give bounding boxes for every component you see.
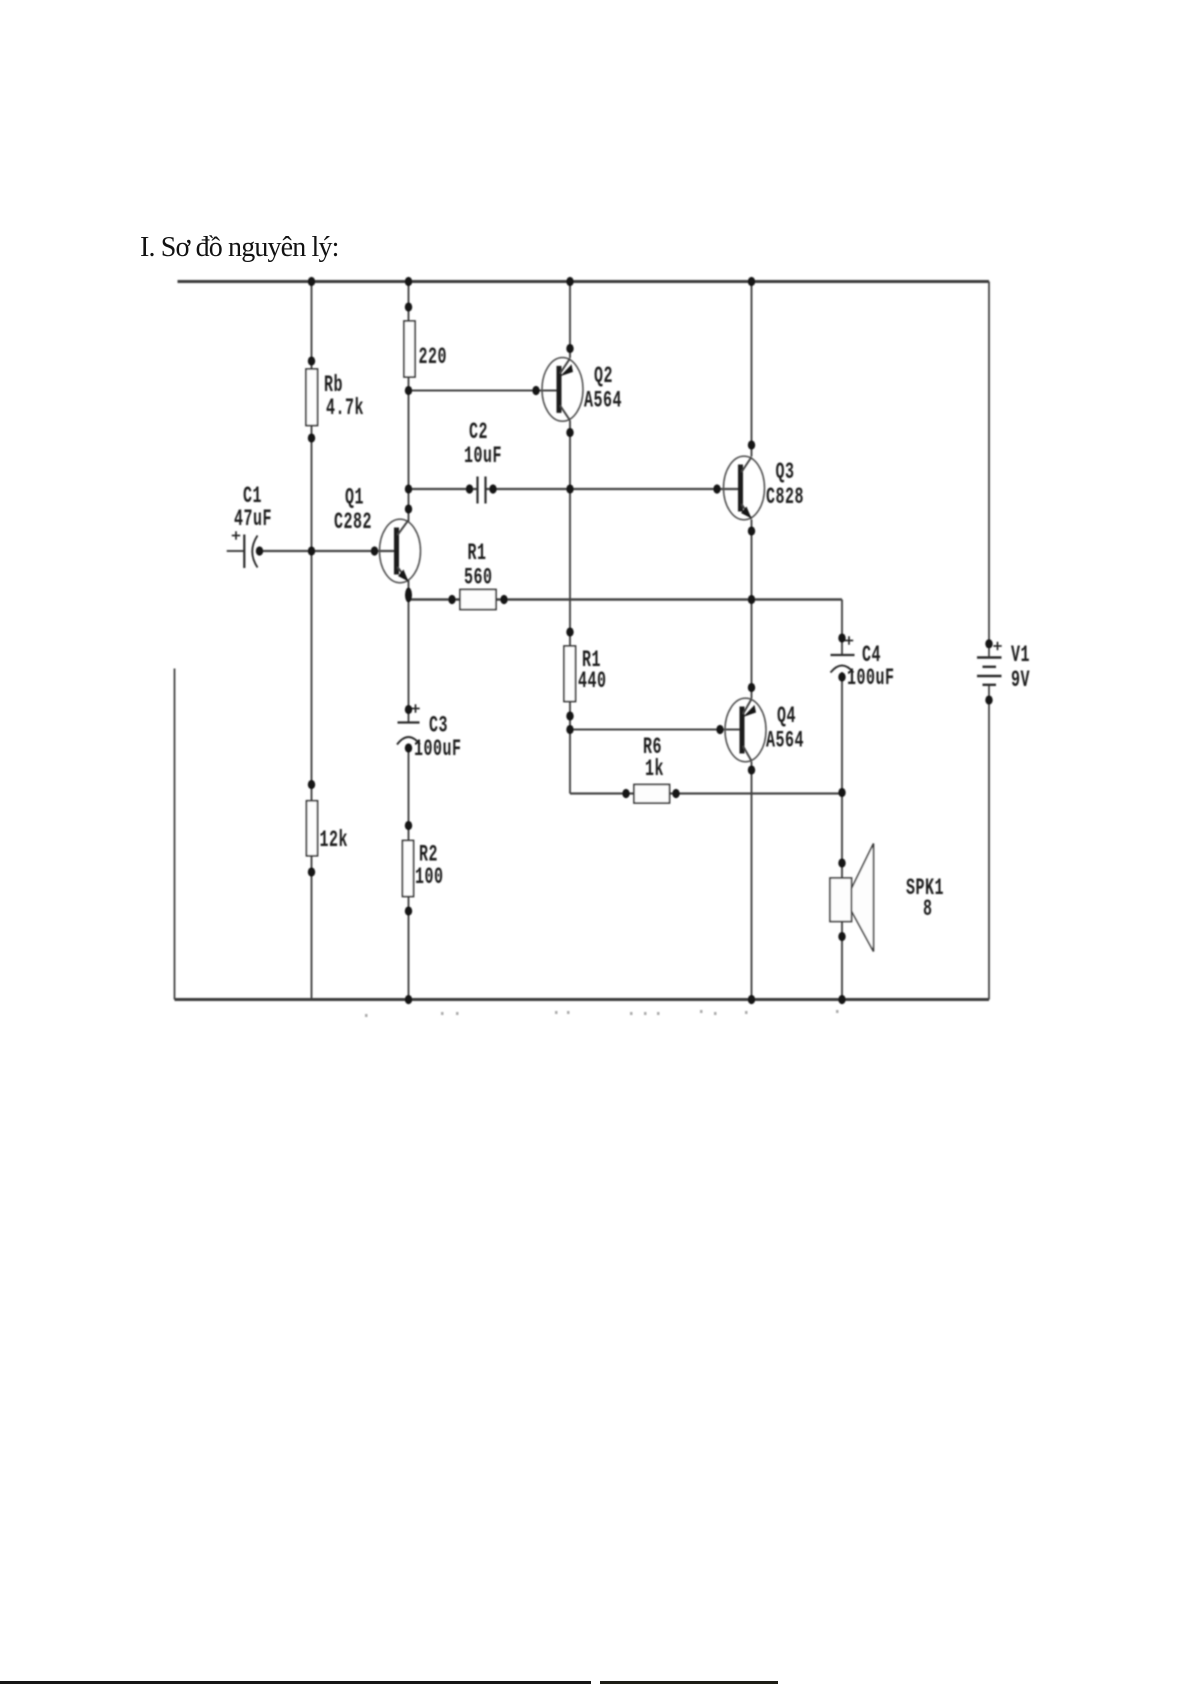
svg-text:V1: V1 (1011, 642, 1030, 668)
svg-text:12k: 12k (320, 827, 348, 853)
svg-text:560: 560 (464, 564, 492, 590)
svg-text:C828: C828 (766, 484, 804, 510)
svg-text:100uF: 100uF (414, 736, 461, 762)
svg-text:Q1: Q1 (345, 484, 364, 510)
svg-text:100: 100 (415, 864, 443, 890)
svg-text:Q3: Q3 (776, 459, 795, 485)
svg-text:Q2: Q2 (594, 363, 613, 389)
svg-text:47uF: 47uF (234, 506, 272, 532)
svg-text:A564: A564 (584, 387, 622, 413)
svg-text:4.7k: 4.7k (326, 395, 364, 421)
svg-text:Q4: Q4 (777, 703, 796, 729)
svg-text:A564: A564 (766, 727, 804, 753)
svg-text:440: 440 (578, 668, 606, 694)
svg-text:10uF: 10uF (464, 443, 502, 469)
svg-text:220: 220 (419, 344, 447, 370)
svg-text:9V: 9V (1011, 667, 1030, 693)
svg-text:R1: R1 (468, 540, 487, 566)
svg-text:C2: C2 (469, 419, 488, 445)
svg-text:1k: 1k (645, 756, 664, 782)
svg-text:8: 8 (923, 896, 932, 922)
svg-text:100uF: 100uF (847, 665, 894, 691)
svg-text:C282: C282 (334, 509, 372, 535)
svg-text:C3: C3 (429, 712, 448, 738)
